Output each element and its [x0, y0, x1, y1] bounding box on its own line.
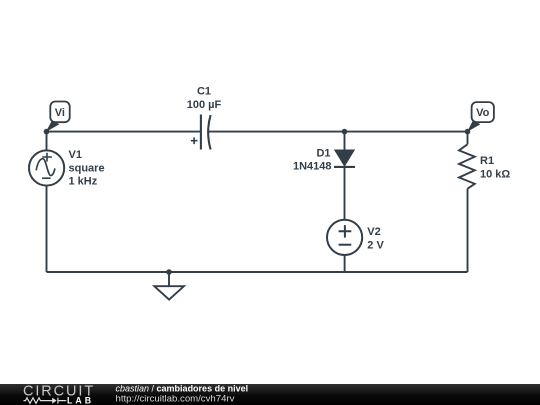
wire V2 negative terminal to bottom rail [344, 255, 346, 272]
footer black bar [0, 384, 540, 405]
svg-text:Vi: Vi [55, 107, 65, 119]
svg-text:1 kHz: 1 kHz [69, 176, 98, 188]
wire D1 cathode to V2 positive terminal [344, 167, 346, 220]
svg-text:LAB: LAB [67, 395, 94, 405]
svg-text:cbastian / cambiadores de nive: cbastian / cambiadores de nivel [116, 384, 249, 394]
diode D1 [334, 150, 355, 167]
CircuitLab logo waveform resistor zigzag and diode [24, 398, 67, 404]
capacitor C1 [191, 115, 211, 150]
svg-text:100 µF: 100 µF [187, 99, 222, 111]
resistor R1 [459, 144, 475, 188]
svg-text:C1: C1 [197, 86, 211, 98]
wire top rail to D1 anode [344, 132, 346, 151]
node Vo flag label [467, 102, 494, 132]
svg-text:10 kΩ: 10 kΩ [480, 168, 510, 180]
svg-text:V1: V1 [69, 149, 82, 161]
svg-text:http://circuitlab.com/cvh74rv: http://circuitlab.com/cvh74rv [116, 394, 235, 405]
svg-text:1N4148: 1N4148 [293, 161, 332, 173]
junction dot at Vi node [44, 129, 50, 135]
svg-text:V2: V2 [367, 226, 380, 238]
wire top rail left segment (Vi node to C1) [47, 131, 201, 133]
wire top rail right segment (C1 to Vo node) [209, 131, 468, 133]
svg-text:2 V: 2 V [367, 239, 384, 251]
wire V1 negative terminal to bottom rail [46, 186, 48, 272]
ground symbol [154, 272, 184, 300]
svg-text:R1: R1 [480, 155, 494, 167]
svg-text:square: square [69, 162, 105, 174]
node Vi flag label [46, 102, 70, 133]
voltage source V1 [29, 150, 64, 185]
junction dot at D1 branch on top rail [342, 129, 348, 135]
wire Vo node to R1 top [467, 132, 469, 145]
voltage source V2 [327, 220, 362, 255]
wire R1 bottom to bottom rail [467, 189, 469, 272]
wire bottom rail [47, 271, 468, 273]
junction dot at Vo node [465, 129, 471, 135]
svg-text:Vo: Vo [476, 107, 490, 119]
svg-text:D1: D1 [316, 147, 330, 159]
wire Vi node to V1 positive terminal [46, 132, 48, 151]
junction dot at ground node [166, 269, 172, 275]
